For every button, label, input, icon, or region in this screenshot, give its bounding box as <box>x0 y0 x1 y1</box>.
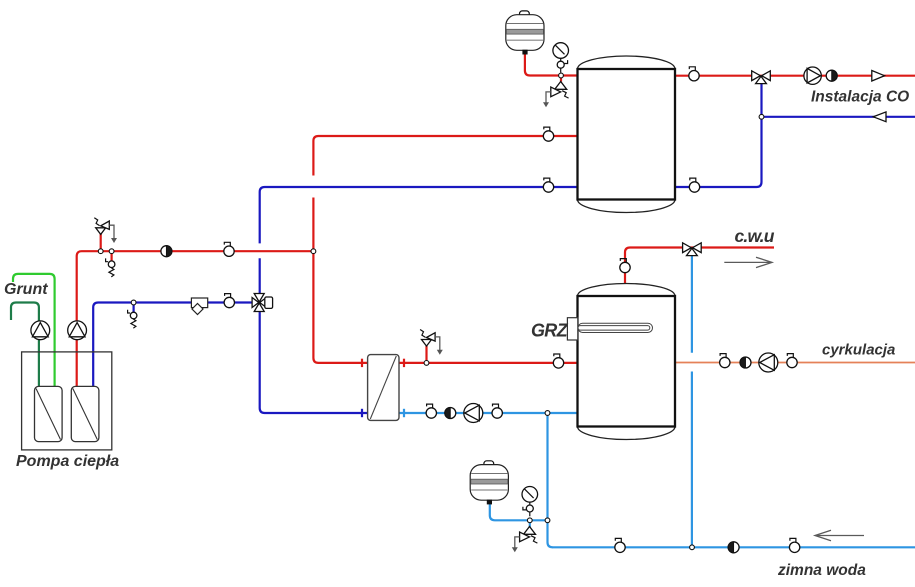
check valve DHW loading <box>445 408 456 419</box>
ball valve buffer right return <box>689 178 699 192</box>
node at HX safety tee <box>424 361 429 366</box>
svg-text:Instalacja CO: Instalacja CO <box>811 89 909 106</box>
ball valve cold water 2 <box>789 538 799 552</box>
node CO return <box>759 114 764 119</box>
safety valve SV1 (below line, top-left group) <box>543 82 569 108</box>
svg-text:cyrkulacja: cyrkulacja <box>822 342 895 359</box>
ball valve DHW tank top <box>620 259 630 273</box>
pump heat pump brine <box>31 321 50 340</box>
safety valve SV4 bottom <box>512 527 538 553</box>
plate heat exchanger <box>368 355 399 421</box>
tick HX red left <box>361 359 363 367</box>
pipe: blue CO return from right edge to node, y=117 <box>762 116 915 118</box>
pressure gauge MG1 with shutoff (top) <box>553 43 569 73</box>
node safety tee <box>98 249 103 254</box>
check valve CO <box>826 70 837 81</box>
ball valve DHW loading 1 <box>426 404 436 418</box>
check valve cold water <box>728 542 739 553</box>
node junction vessel line / vertical <box>545 518 550 523</box>
pipe: blue buffer return y=187 from tank left to vertical x=259.7 <box>260 187 578 243</box>
DHW tank top cap <box>578 284 676 297</box>
check valve heat pump supply <box>161 246 172 257</box>
tick HX red right <box>403 359 405 367</box>
pipe: light blue vertical x=547.5 down to cold water line <box>548 413 553 547</box>
node drain tee blue <box>131 300 136 305</box>
GRZ flange <box>567 318 577 340</box>
arrow CO return left <box>873 112 886 122</box>
ball valve heat pump return <box>224 294 234 308</box>
pipe: light blue cold water feed vertical x=691.9 upper segment <box>691 254 693 353</box>
pipe: red DHW tank top outlet x=625 <box>625 248 774 291</box>
heat pump right exchanger <box>71 386 99 441</box>
arrow CO supply right <box>872 71 885 82</box>
4-way mixing valve <box>252 294 272 312</box>
expansion vessel EV2 (bottom, DHW) <box>470 461 508 505</box>
svg-text:GRZ: GRZ <box>531 321 569 341</box>
3-way valve c.w.u <box>683 243 702 256</box>
buffer tank top cap <box>578 56 676 69</box>
safety valve SV3 at HX <box>420 330 443 355</box>
pipe: blue stub drain heat pump return <box>133 303 135 313</box>
pipe: light blue cold water feed vertical x=691.9 lower segment <box>691 372 693 548</box>
3-way mixing valve CO <box>752 71 771 84</box>
ball valve cyrkulacja 1 <box>720 354 730 368</box>
pipe: light blue stub safety valve bottom <box>529 520 531 527</box>
ball valve DHW loading 2 <box>492 404 502 418</box>
pump cyrkulacja <box>759 353 778 372</box>
svg-text:Grunt: Grunt <box>4 281 48 298</box>
pipe: red HX secondary out to DHW tank y=362.9 <box>398 362 578 364</box>
pump DHW loading <box>464 404 483 423</box>
GRZ heating element inner tube <box>578 326 650 331</box>
ball valve heat pump supply <box>224 242 234 256</box>
pressure gauge MG2 with shutoff (bottom) <box>522 487 538 517</box>
node on vessel line top <box>559 73 564 78</box>
drain cock heat pump return <box>128 310 137 329</box>
node drain tee <box>109 249 114 254</box>
heat pump cabinet box <box>22 352 112 450</box>
pipe: blue vertical x=259.7 lower segment through 4-way valve to HX y=413 <box>260 258 369 413</box>
pipe: light blue cold water main y=547.3 <box>552 546 915 548</box>
pipe: red from expansion vessel EV1 to buffer tank, y=75.5 <box>525 53 578 76</box>
DHW tank bottom cap <box>578 427 676 440</box>
expansion vessel EV1 (top, heating) <box>506 11 544 55</box>
ball valve cyrkulacja 2 <box>787 354 797 368</box>
ball valve buffer left supply <box>543 127 553 141</box>
pump heat pump heating <box>68 321 87 340</box>
svg-text:Pompa ciepła: Pompa ciepła <box>16 453 119 470</box>
heat pump left exchanger <box>35 386 63 441</box>
check valve cyrkulacja <box>740 357 751 368</box>
pipe: green brine supply (light green) from Grunt <box>13 274 55 389</box>
tick HX light blue right <box>403 409 405 417</box>
pipe: light blue from expansion vessel EV2 to junction y=520.3 <box>490 504 548 520</box>
arrow c.w.u flow <box>724 257 772 267</box>
pipe: blue vertical from 3-way valve down and left into buffer, x=761.5 <box>675 80 762 187</box>
pipe: red heat pump supply vertical x=76.7 and horizontal y=251.2 <box>77 251 314 389</box>
ball valve DHW supply into tank <box>553 354 563 368</box>
strainer filter <box>191 298 207 315</box>
safety valve SV2 heat pump supply <box>94 218 117 243</box>
pipe: red buffer middle supply y=136 with corner to vertical x=313.4 <box>313 136 578 176</box>
svg-text:zimna woda: zimna woda <box>777 562 866 579</box>
pipe: dark green brine return to Grunt <box>11 303 39 390</box>
pipe: orange cyrkulacja line y=362.5 <box>675 362 915 364</box>
pipe: red stub safety valve group top-left <box>560 76 562 82</box>
ball valve cold water 1 <box>615 538 625 552</box>
pipe: red CO supply from buffer right to edge, y=76 <box>675 75 915 77</box>
pipe: red vertical lower segment x=313.4 down to HX supply y=362.9 <box>313 198 369 363</box>
node red tee x=313.4 <box>311 249 316 254</box>
pipe: red stub safety valve at HX <box>425 346 427 363</box>
tick HX blue left <box>361 409 363 417</box>
pipe: red stub safety valve heat pump <box>100 234 102 251</box>
buffer tank bottom cap <box>578 200 676 213</box>
ball valve buffer right supply <box>689 67 699 81</box>
node below gauge bottom <box>527 518 532 523</box>
pipe: blue heat pump return horizontal y=302.5 and vertical x=93.2 <box>93 303 260 390</box>
pipe: red stub drain heat pump supply <box>110 251 112 261</box>
svg-text:c.w.u: c.w.u <box>735 226 775 246</box>
node cold water junction <box>690 545 695 550</box>
drain cock heat pump supply <box>106 258 115 277</box>
node cold water tee at tank <box>545 411 550 416</box>
pipe: light blue DHW loading line y=413 from HX to tank <box>398 412 578 414</box>
DHW tank body <box>578 296 676 427</box>
GRZ heating element outer tube <box>578 323 653 332</box>
ball valve buffer left return <box>543 178 553 192</box>
buffer tank body <box>578 69 676 200</box>
pump CO circulation <box>804 67 821 84</box>
arrow cold water flow <box>815 530 864 540</box>
